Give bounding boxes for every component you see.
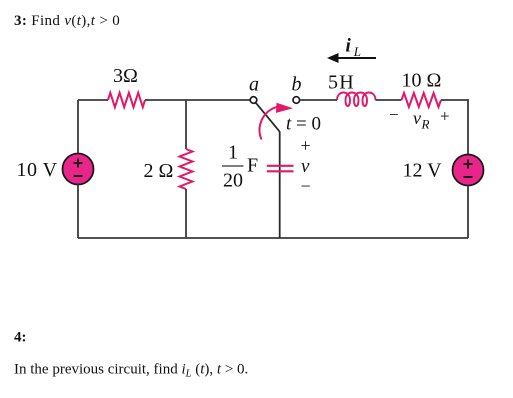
label capacitor voltage v	[301, 156, 310, 177]
svg-text:1: 1	[228, 141, 238, 163]
wire middle branch top	[185, 100, 187, 149]
wire top-left segment	[78, 99, 108, 101]
wire resistor to top-right corner and down	[441, 100, 468, 155]
svg-text:+: +	[301, 136, 311, 156]
wire node b to inductor	[300, 99, 337, 101]
svg-text:v: v	[301, 156, 310, 177]
switch arm from a	[256, 103, 280, 132]
problem 3 title text	[14, 13, 120, 29]
svg-text:4:: 4:	[14, 330, 27, 346]
svg-text:3: Find v(t),t > 0: 3: Find v(t),t > 0	[14, 13, 120, 29]
voltage source 10 V	[63, 154, 94, 185]
node a terminal circle	[250, 97, 257, 104]
svg-text:10 Ω: 10 Ω	[402, 70, 442, 92]
svg-text:12 V: 12 V	[403, 160, 443, 182]
label node b	[292, 74, 302, 96]
svg-text:20: 20	[223, 170, 243, 192]
svg-text:v: v	[413, 108, 421, 128]
svg-text:10 V: 10 V	[17, 159, 58, 181]
wire top segment to node a	[145, 99, 250, 101]
problem 4 body text	[14, 362, 248, 380]
label t = 0	[286, 113, 321, 134]
label 5H value	[328, 72, 355, 94]
inductor current arrow iL	[327, 53, 376, 63]
label vR polarity minus	[389, 105, 399, 124]
capacitor C plates	[267, 166, 294, 172]
label 3Ω value	[113, 65, 138, 87]
svg-text:F: F	[247, 155, 258, 177]
label 2 Ω value	[144, 160, 174, 182]
label vR voltage	[413, 108, 430, 132]
svg-text:2 Ω: 2 Ω	[144, 160, 174, 182]
wire source to bottom-right corner	[467, 186, 469, 239]
label 10 Ω value	[402, 70, 442, 92]
label node a	[249, 74, 259, 96]
label 10 V value	[17, 159, 58, 181]
svg-text:In the previous circuit, find: In the previous circuit, find iL (t), t …	[14, 362, 248, 380]
wire inductor to resistor	[376, 99, 402, 101]
svg-text:−: −	[389, 105, 399, 124]
wire middle branch bottom	[185, 189, 187, 238]
label iL current	[346, 36, 362, 60]
inductor L 5H	[337, 93, 376, 107]
resistor 2Ω	[180, 149, 193, 189]
svg-text:i: i	[346, 36, 352, 57]
wire bottom rail	[78, 237, 468, 239]
voltage source 12 V	[453, 155, 484, 186]
label capacitor value 1/20 F	[222, 141, 258, 191]
svg-text:b: b	[292, 74, 302, 96]
svg-text:R: R	[421, 117, 430, 132]
resistor 3Ω	[108, 93, 145, 107]
wire left from top corner down	[77, 100, 79, 154]
svg-text:a: a	[249, 74, 259, 96]
wire capacitor branch	[279, 132, 281, 238]
svg-text:t = 0: t = 0	[286, 113, 321, 134]
svg-text:3Ω: 3Ω	[113, 65, 138, 87]
switch motion curved arrow	[260, 103, 293, 140]
wire source to bottom-left corner	[77, 185, 79, 239]
svg-text:L: L	[353, 44, 361, 59]
label 12 V value	[403, 160, 443, 182]
label vR polarity plus	[440, 107, 450, 126]
resistor 10Ω	[402, 93, 442, 107]
svg-text:−: −	[301, 176, 311, 196]
label capacitor polarity minus	[301, 176, 311, 196]
svg-text:5H: 5H	[328, 72, 355, 94]
svg-text:+: +	[440, 107, 450, 126]
label capacitor polarity plus	[301, 136, 311, 156]
problem 4 heading text	[14, 330, 27, 346]
node b terminal circle	[293, 97, 300, 104]
